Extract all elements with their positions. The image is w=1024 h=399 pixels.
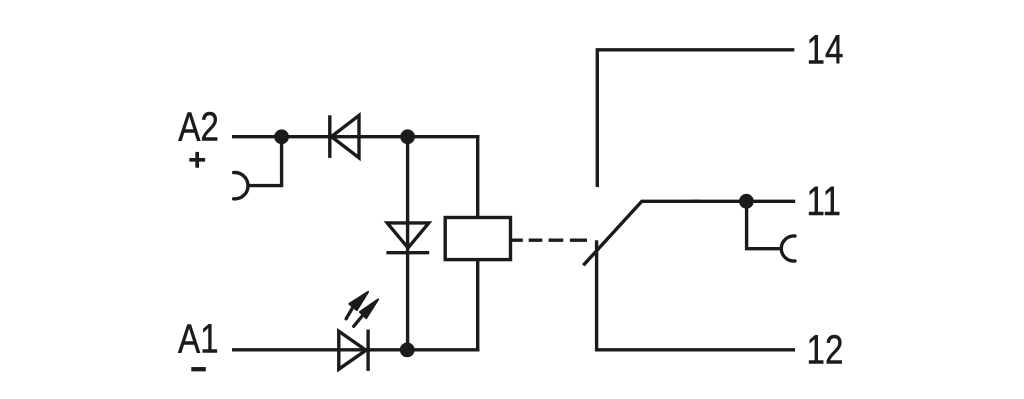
node junction J1 (274, 129, 289, 144)
wire A1 horizontal (232, 348, 479, 351)
relay coil K1 (445, 218, 510, 260)
socket contact A2 (234, 173, 248, 199)
wire coil top (476, 135, 479, 218)
svg-text:12: 12 (807, 326, 844, 372)
polarity plus (189, 152, 205, 168)
socket contact 11 (781, 236, 795, 261)
wire coil bottom (476, 260, 479, 352)
node junction J4 (739, 194, 754, 209)
svg-text:A2: A2 (178, 103, 219, 149)
contact 14 wire (597, 50, 794, 187)
contact 12 wire (597, 240, 795, 349)
wire J4 to socket 11 (747, 201, 780, 248)
LED arrow 2 (354, 299, 378, 326)
node junction J2 (400, 129, 415, 144)
contact 11 wire (690, 200, 795, 203)
polarity minus (191, 367, 206, 371)
wire freewheel branch vertical (406, 137, 409, 350)
dashed actuation link (510, 238, 587, 241)
svg-text:11: 11 (807, 178, 841, 224)
diode V1 triangle (331, 115, 359, 157)
diode V2 freewheeling triangle (387, 223, 429, 248)
LED arrow 1 (346, 292, 368, 319)
node junction J3 (400, 343, 415, 358)
LED V3 cathode bar (366, 330, 369, 371)
wire J1 to socket A2 (249, 137, 281, 186)
wire A2 horizontal (232, 135, 479, 138)
diode V1 reverse-polarity, cathode bar (328, 115, 331, 158)
LED V3 triangle (339, 331, 366, 369)
switch arm (583, 201, 700, 265)
diode V2 cathode bar (386, 251, 429, 254)
svg-text:A1: A1 (178, 315, 219, 361)
svg-text:14: 14 (807, 26, 844, 72)
